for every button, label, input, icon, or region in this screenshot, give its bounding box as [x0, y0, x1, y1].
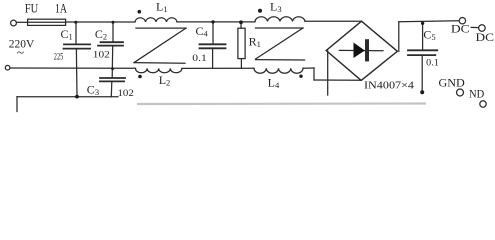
core of choke L1/L2 bottom bar — [134, 62, 185, 65]
svg-text:0.1: 0.1 — [192, 53, 207, 63]
svg-text:1A: 1A — [55, 1, 67, 16]
wire: through fuse — [28, 21, 66, 23]
core of choke L1/L2 (Z shape) top bar — [136, 27, 186, 29]
junction dot: C5 / DC+ rail — [421, 22, 424, 25]
core of choke L3/L4 bottom bar — [256, 59, 305, 61]
junction dot: C4 / top rail — [211, 20, 214, 23]
svg-text:DC: DC — [451, 21, 470, 35]
terminal: AC input top-left — [11, 20, 17, 26]
phase dot: L2 — [138, 75, 142, 79]
dot: C5 bottom end — [420, 90, 424, 94]
ground rail corner vertical (left) — [16, 97, 18, 112]
bridge internal diode wire — [339, 49, 383, 51]
capacitor C4 plates — [200, 44, 226, 48]
capacitor C2 plates — [98, 42, 123, 45]
svg-text:~: ~ — [17, 45, 24, 60]
svg-text:ND: ND — [469, 87, 484, 101]
capacitor C4 top lead — [212, 22, 214, 44]
wire: bottom rail terminal to L2 — [10, 67, 136, 69]
capacitor C4 bottom lead — [212, 49, 214, 68]
capacitor C1 plates — [64, 44, 91, 48]
svg-text:102: 102 — [93, 49, 110, 59]
inductor L4 winding (4 scallops below line) — [254, 68, 303, 73]
capacitor C1 bottom lead (crosses N rail, to ground rail) — [75, 50, 78, 97]
ground rail horizontal (black segment) — [17, 96, 118, 98]
phase dot: L1 — [138, 10, 142, 14]
wire: top rail fuse to L1 — [66, 21, 135, 23]
resistor R1 bottom lead — [240, 59, 242, 69]
terminal: AC input bottom-left — [5, 65, 10, 70]
capacitor C5 top lead — [422, 22, 424, 50]
bridge internal diode cathode bar — [365, 41, 369, 59]
svg-text:DC: DC — [476, 30, 495, 44]
wire: step down vertical — [313, 68, 315, 80]
phase dot: L3 — [258, 9, 262, 13]
core of choke L1/L2 diagonal — [134, 28, 186, 63]
junction dot: C1 / ground rail — [75, 95, 79, 99]
wire: stub to DC output 2 — [471, 26, 478, 28]
bridge rectifier diamond outline — [326, 21, 397, 80]
inductor L2 winding (4 scallops below line) — [136, 68, 182, 72]
wire: bottom rail L2 to L4 — [182, 67, 254, 69]
capacitor C5 bottom lead — [421, 56, 423, 92]
junction dot: C2 / top rail — [112, 21, 115, 24]
faint ground bus (scan-faded) — [137, 102, 426, 105]
wire: step horizontal to bridge bottom corner — [314, 79, 361, 81]
resistor R1 top lead — [240, 22, 242, 28]
svg-text:FU: FU — [25, 1, 39, 16]
wire: bridge left corner down to ground area — [327, 51, 329, 95]
junction dot: C2-C3 / N rail — [111, 67, 114, 70]
terminal: GND 2 — [480, 101, 486, 107]
phase dot: L4 — [299, 75, 302, 78]
inductor L1 winding (4 humps) — [135, 18, 177, 22]
svg-text:0.1: 0.1 — [426, 58, 439, 68]
bridge internal diode triangle — [354, 43, 365, 59]
terminal: DC output 1 — [459, 18, 465, 24]
wire: top rail L3 to bridge top corner — [305, 20, 362, 22]
capacitor C2 top lead — [112, 22, 114, 41]
svg-text:225: 225 — [54, 52, 64, 62]
core of choke L3/L4 diagonal — [256, 28, 304, 59]
junction dot: R1 / top rail — [239, 20, 243, 24]
capacitor C3 plates — [100, 78, 125, 81]
wire: top rail L1 to L3 — [177, 21, 255, 23]
svg-text:GND: GND — [439, 76, 466, 90]
wire: C2 bottom to C3 top (crosses N rail) — [111, 47, 114, 78]
capacitor C3 bottom lead to ground rail — [110, 82, 113, 97]
wire: bottom rail L4 to step — [303, 67, 314, 69]
inductor L3 winding (4 humps) — [255, 17, 305, 22]
capacitor C1 top lead — [75, 22, 77, 43]
junction dot: C1 / top rail — [74, 21, 77, 24]
core of choke L3/L4 (Z shape) top bar — [256, 27, 304, 29]
wire: bridge right corner up — [398, 22, 400, 52]
terminal: GND 1 — [457, 89, 464, 96]
resistor R1 body (box) — [238, 28, 245, 58]
terminal: DC output 2 — [479, 25, 486, 32]
wire: terminal to fuse — [17, 21, 28, 23]
svg-text:IN4007×4: IN4007×4 — [364, 81, 415, 92]
fuse FU (rectangle with wire through) — [28, 19, 66, 25]
wire: DC+ rail to output terminal — [399, 21, 459, 22]
svg-text:102: 102 — [118, 88, 134, 98]
capacitor C5 plates — [408, 50, 437, 55]
